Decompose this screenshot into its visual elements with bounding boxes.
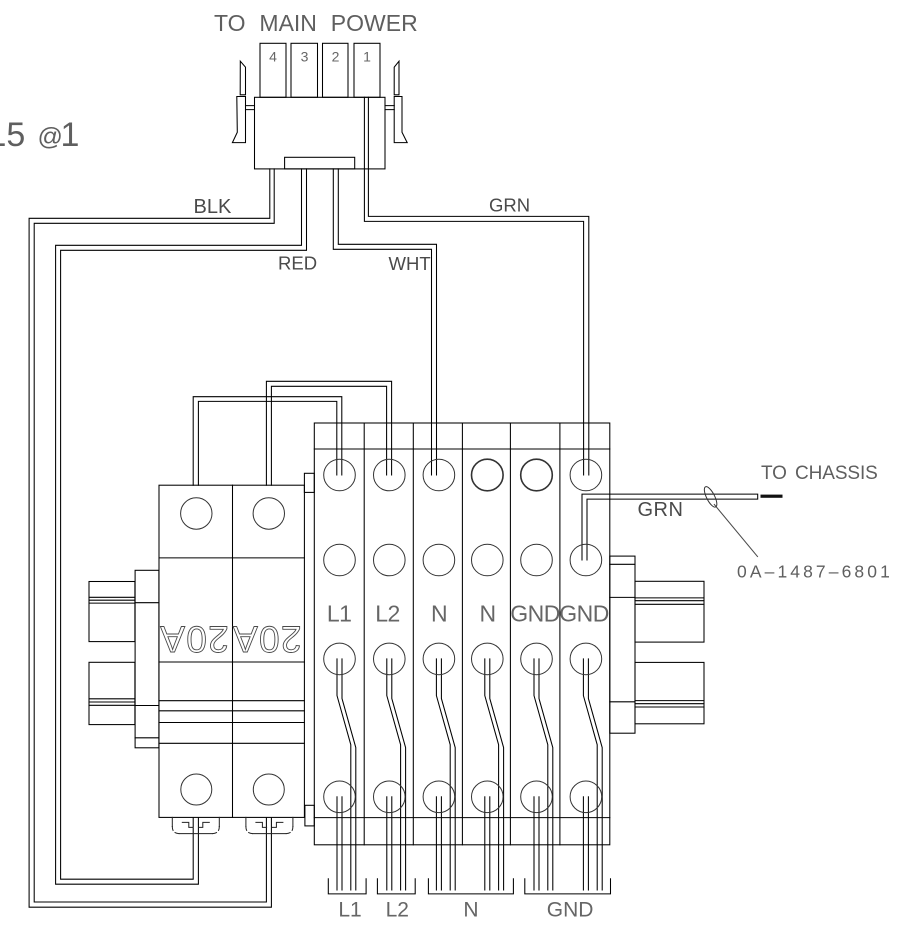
svg-text:1: 1 [61,116,80,154]
svg-text:@: @ [38,123,63,151]
svg-text:0A–1487–6801: 0A–1487–6801 [737,562,893,582]
svg-text:N: N [479,601,495,627]
svg-text:RED: RED [278,253,317,274]
svg-text:TO CHASSIS: TO CHASSIS [761,463,878,484]
svg-text:TO MAIN POWER: TO MAIN POWER [214,10,418,36]
svg-text:20A: 20A [232,618,302,659]
svg-text:20A: 20A [159,618,229,659]
svg-text:4: 4 [269,49,277,65]
svg-text:N: N [463,899,478,922]
svg-text:L2: L2 [386,899,409,922]
svg-text:GND: GND [510,601,560,627]
svg-text:GRN: GRN [638,499,684,521]
svg-text:3: 3 [301,49,309,65]
svg-text:L2: L2 [375,601,400,627]
svg-text:GND: GND [547,899,594,922]
svg-text:15: 15 [0,116,25,154]
svg-text:GRN: GRN [489,195,530,216]
svg-text:GND: GND [559,601,609,627]
svg-text:L1: L1 [327,601,352,627]
svg-text:N: N [431,601,447,627]
svg-text:BLK: BLK [194,196,232,218]
svg-text:WHT: WHT [389,253,431,274]
svg-text:2: 2 [332,49,340,65]
svg-text:L1: L1 [338,899,361,922]
svg-text:1: 1 [363,49,371,65]
